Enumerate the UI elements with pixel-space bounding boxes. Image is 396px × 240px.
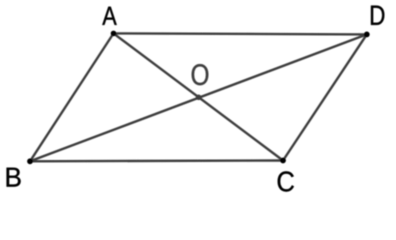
wire side BC (30, 159, 283, 162)
node C (280, 158, 286, 164)
label A (102, 7, 116, 25)
node D (364, 32, 370, 38)
wire side DC (283, 34, 367, 160)
label D (371, 6, 384, 25)
wire diagonal AC (114, 33, 284, 160)
node O (196, 95, 202, 101)
node A (111, 31, 117, 37)
wire diagonal BD (30, 34, 367, 161)
label C (278, 171, 294, 191)
wire side AD (114, 33, 367, 34)
node B (27, 158, 33, 164)
wire side AB (30, 33, 114, 161)
label B (7, 168, 21, 187)
label O (192, 64, 209, 85)
